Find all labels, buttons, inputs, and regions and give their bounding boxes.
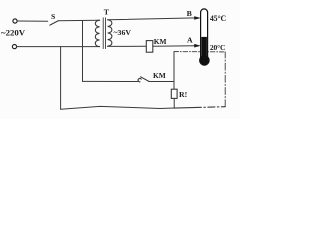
arrow electrode A [194, 44, 201, 48]
terminal bottom-left input [12, 45, 16, 49]
tank boundary right (dash-dot) [224, 52, 226, 107]
switch S blade [50, 21, 58, 25]
contactor coil KM [146, 41, 153, 53]
svg-text:R!: R! [179, 90, 187, 99]
terminal top-left input [13, 19, 17, 23]
wire vertical heater branch to resistor Rt [173, 52, 175, 89]
resistor R heater element [171, 89, 177, 98]
svg-text:KM: KM [154, 37, 167, 46]
wire top from terminal to switch S [17, 20, 47, 22]
svg-text:~220V: ~220V [1, 27, 26, 37]
transformer T secondary winding [108, 20, 112, 46]
wire vertical from bottom wire down to bottom rail [60, 47, 62, 110]
thermometer tube [201, 9, 208, 57]
svg-text:20°C: 20°C [210, 43, 225, 52]
svg-text:T: T [104, 8, 110, 17]
wire bottom from terminal to transformer primary [17, 46, 100, 48]
transformer T primary winding [95, 20, 99, 46]
svg-text:KM: KM [153, 71, 166, 80]
wire secondary bottom to contactor coil KM [108, 45, 147, 47]
svg-text:45°C: 45°C [210, 14, 227, 23]
wire secondary top to electrode B [108, 18, 196, 20]
arrow electrode B [194, 16, 201, 20]
wire from switch S to transformer primary [58, 19, 99, 22]
thermometer bulb [199, 55, 210, 66]
wire from coil KM to electrode A [153, 45, 196, 48]
tank boundary bottom (dash-dot) [174, 107, 225, 108]
dash-dot link to thermometer [174, 51, 225, 53]
transformer T core [102, 18, 104, 49]
svg-text:A: A [187, 36, 193, 45]
contact KM (normally-open contact) [138, 78, 141, 81]
svg-text:S: S [51, 12, 55, 21]
wire bottom rail [61, 106, 175, 109]
wire from branch to KM contact [83, 80, 138, 82]
wire from KM contact to heater branch [149, 81, 174, 83]
svg-text:B: B [187, 9, 192, 18]
wire resistor bottom lead [173, 98, 175, 108]
thermometer mercury column [201, 37, 207, 58]
wire vertical branch from top wire down to KM contact [82, 21, 84, 82]
svg-text:~36V: ~36V [114, 28, 132, 37]
